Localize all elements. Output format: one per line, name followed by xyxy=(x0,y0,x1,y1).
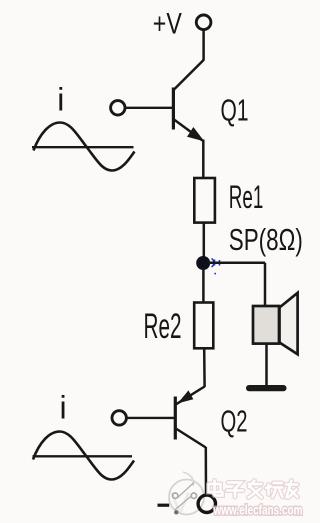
speaker cone xyxy=(280,293,298,355)
power terminal +V circle xyxy=(196,15,211,30)
wire: Q1 emitter to Re1 xyxy=(202,140,205,179)
resistor Re2 xyxy=(194,303,213,349)
resistor Re1 xyxy=(194,178,215,223)
signal source sine wave (top) axis xyxy=(32,146,134,148)
signal source sine wave (bottom) curve xyxy=(33,432,134,480)
ground bar xyxy=(246,385,287,391)
svg-text:i: i xyxy=(57,82,64,118)
wire: speaker to ground xyxy=(265,344,268,386)
signal source sine wave (bottom) axis xyxy=(33,455,133,457)
wire: Re2 to Q2 emitter xyxy=(203,348,206,387)
blue artifact marks at node xyxy=(212,259,222,275)
svg-text:Q2: Q2 xyxy=(221,404,248,439)
wire: input 2 to Q2 base xyxy=(127,417,175,419)
label -V xyxy=(158,504,170,507)
wire: node to speaker (horizontal) xyxy=(208,261,265,264)
wire: +V terminal down to Q1 collector xyxy=(202,30,205,60)
speaker driver rectangle xyxy=(253,306,279,344)
wire: Re1 to node xyxy=(203,223,206,258)
svg-text:Re2: Re2 xyxy=(144,307,182,346)
svg-text:SP(8Ω): SP(8Ω) xyxy=(229,222,303,257)
svg-text:Q1: Q1 xyxy=(221,93,249,128)
input terminal 2 circle xyxy=(112,411,126,425)
svg-text:Re1: Re1 xyxy=(229,179,263,215)
node junction dot xyxy=(196,256,210,270)
wire: down to speaker xyxy=(264,263,267,307)
watermark text 电子发烧友 (approximated strokes) xyxy=(209,481,298,498)
wire: node down to Re2 xyxy=(202,268,205,303)
input terminal 1 circle xyxy=(111,101,125,115)
svg-text:+V: +V xyxy=(153,8,182,41)
transistor Q2 xyxy=(175,387,206,448)
svg-text:i: i xyxy=(60,389,67,425)
power terminal -V circle xyxy=(198,495,215,512)
wire: Q2 collector to -V terminal xyxy=(205,447,208,495)
watermark logo circle xyxy=(169,472,204,515)
wire: input 1 to Q1 base xyxy=(125,107,172,109)
signal source sine wave (top) curve xyxy=(34,123,135,171)
watermark text www.elecfans.com xyxy=(213,503,303,518)
svg-text:www.elecfans.com: www.elecfans.com xyxy=(213,503,303,518)
transistor Q1 xyxy=(173,60,203,141)
